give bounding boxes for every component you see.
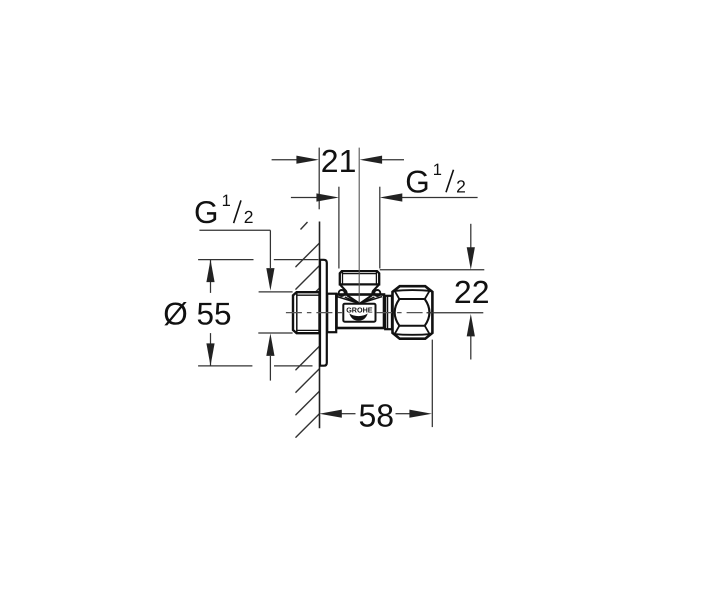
valve body block [337,295,385,329]
dimension 58 arrowheads [319,410,342,418]
dimension 21 extension line (wall) [318,148,320,210]
funnel neck left side [340,284,347,294]
svg-text:22: 22 [454,274,490,310]
GROHE logo swoosh [349,313,367,320]
svg-text:Ø 55: Ø 55 [163,296,231,332]
svg-text:58: 58 [359,398,395,434]
funnel right ear [374,290,380,296]
nut corner connectors [395,291,400,299]
male inlet thread G1/2 [293,292,320,333]
svg-text:2: 2 [244,207,254,227]
svg-text:21: 21 [321,143,357,179]
label G1/2 top-right [405,161,466,199]
svg-text:1: 1 [222,192,231,210]
funnel neck right side [372,284,379,294]
dimension 21 arrowheads [296,156,319,164]
outlet washer between body and nut [385,296,393,329]
top outlet collar thread G1/2 [340,271,379,284]
GROHE badge plate [343,304,375,322]
dimension 21 line right tail [380,159,404,161]
funnel cone rays [337,297,382,304]
label G1/2 left leader lines [199,230,292,380]
dimension 21 line left tail [272,159,299,161]
label G1/2 left leader arrowheads [266,268,274,291]
dimension G1/2 top line tails [291,197,319,199]
connecting pipe flange-to-body [327,294,336,333]
vertical port centerline [358,148,360,303]
dimension 22 line segments [470,224,472,250]
wall surface line [319,222,321,429]
escutcheon flange (Ø55) [320,260,327,366]
dimension Ø55 line segments [210,260,212,293]
svg-text:GROHE: GROHE [346,306,373,315]
funnel V cone edges [347,295,359,303]
dimension Ø55 extension lines [198,260,318,366]
dimension 22 arrowheads [467,247,475,270]
compression nut outline (hex side view) [393,286,433,339]
nut hex flat edges [399,298,425,300]
svg-text:G: G [405,163,430,199]
svg-text:1: 1 [433,161,442,179]
dimension G1/2 top arrowheads [316,193,339,201]
nut barrel arcs [395,299,400,326]
horizontal centerline (dash-dot) [286,312,343,314]
dimension 58 extension line (right) [431,340,433,428]
nut top face arc [393,289,432,292]
funnel left ear [339,290,345,296]
svg-text:2: 2 [456,176,466,196]
svg-text:G: G [194,194,219,230]
dimension 22 extension lines [380,269,485,271]
dimension Ø55 arrowheads [206,260,214,283]
dimension 58 line tails [340,413,356,415]
label G1/2 left [194,192,254,230]
nut bottom face arc [393,333,432,336]
dimension G1/2 top extension lines [338,187,340,269]
wall section hatching [295,222,319,438]
